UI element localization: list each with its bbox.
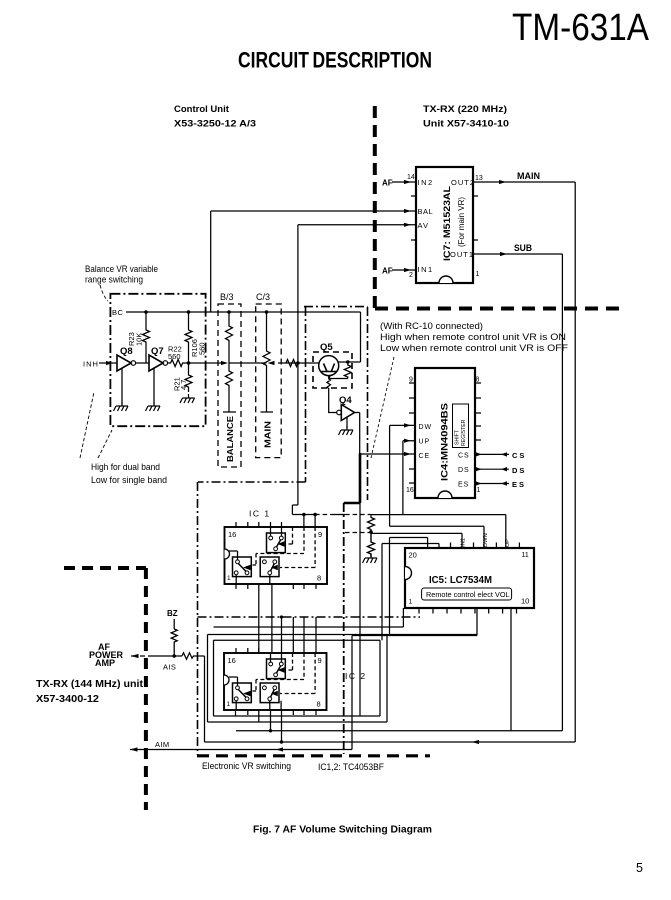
svg-text:BC: BC <box>112 308 124 317</box>
svg-text:DWN: DWN <box>483 533 489 547</box>
svg-text:20: 20 <box>409 551 417 560</box>
resistor Q5 emitter-collector <box>346 360 350 364</box>
svg-text:AMP: AMP <box>95 658 115 668</box>
wire IC5 bottom to AIM via x352 <box>352 608 477 750</box>
unit boundary thick dashed horizontal (220MHz) <box>375 307 626 311</box>
svg-text:BALANCE: BALANCE <box>225 416 235 462</box>
svg-text:CS: CS <box>512 451 526 460</box>
dash-dot boundary lower vertical <box>343 503 345 754</box>
svg-text:5: 5 <box>636 861 643 875</box>
switch IC2 <box>224 648 367 715</box>
svg-text:MAIN: MAIN <box>263 421 273 448</box>
svg-text:IC 2: IC 2 <box>345 671 367 681</box>
svg-text:REGISTER: REGISTER <box>461 419 467 446</box>
svg-text:2: 2 <box>409 272 413 279</box>
svg-text:Balance VR variable: Balance VR variable <box>85 264 158 274</box>
svg-text:10K: 10K <box>135 333 144 346</box>
svg-text:AIS: AIS <box>163 663 176 672</box>
svg-text:X53-3250-12 A/3: X53-3250-12 A/3 <box>174 119 256 130</box>
svg-text:C/3: C/3 <box>256 292 270 302</box>
svg-text:Q8: Q8 <box>120 346 133 357</box>
wire ctl line over IC1 <box>292 363 315 515</box>
svg-text:14: 14 <box>407 174 415 181</box>
wire DS stub <box>475 468 509 470</box>
leader from note <box>371 357 394 458</box>
wire BAL <box>211 211 416 312</box>
svg-text:AF: AF <box>382 267 393 276</box>
wire UP path <box>403 441 506 548</box>
wire C/3 tap to Q5 <box>278 362 319 364</box>
svg-text:CS: CS <box>458 453 470 460</box>
svg-text:DS: DS <box>458 467 470 474</box>
cell s4 <box>267 659 286 679</box>
svg-text:1: 1 <box>409 599 413 606</box>
cell s5 <box>233 683 252 703</box>
boundary thick dashed bottom horizontal <box>197 754 430 757</box>
wires to cells <box>229 653 282 710</box>
wire CE path <box>360 453 416 455</box>
svg-text:TX-RX (220 MHz): TX-RX (220 MHz) <box>423 104 507 115</box>
svg-text:MAIN: MAIN <box>517 171 540 181</box>
svg-text:1: 1 <box>227 701 231 708</box>
IC4 shift register <box>406 368 481 498</box>
svg-text:IC5: LC7534M: IC5: LC7534M <box>429 575 492 586</box>
unit boundary thick dashed (144MHz) <box>64 568 146 810</box>
svg-text:ES: ES <box>512 480 526 489</box>
svg-text:9: 9 <box>318 530 322 539</box>
svg-text:13: 13 <box>475 175 483 182</box>
svg-text:16: 16 <box>406 487 414 494</box>
svg-text:Control Unit: Control Unit <box>174 104 230 115</box>
svg-text:SHIFT: SHIFT <box>455 429 461 445</box>
svg-text:10: 10 <box>521 597 529 606</box>
resistor R23 10K <box>143 312 150 363</box>
svg-text:16: 16 <box>228 530 236 539</box>
leader to box <box>100 285 108 301</box>
cell s1 <box>267 533 286 553</box>
svg-text:OUT2: OUT2 <box>451 178 475 187</box>
svg-text:IC 1: IC 1 <box>249 509 271 519</box>
unit boundary thick dashed vertical (220MHz) <box>373 106 377 311</box>
wire Q4 out <box>355 413 360 455</box>
wire node to B/3 <box>186 362 226 364</box>
svg-text:range switching: range switching <box>85 275 143 285</box>
dash-dot thick jog <box>344 453 360 503</box>
wire AIS <box>131 655 138 657</box>
IC5 volume controller <box>405 533 534 613</box>
wire DW path <box>390 425 484 548</box>
svg-text:CIRCUIT DESCRIPTION: CIRCUIT DESCRIPTION <box>238 48 432 73</box>
wire IC5 wrap left A <box>390 538 428 635</box>
resistor R21 4.7 <box>185 363 192 392</box>
wire AV <box>298 225 416 363</box>
cell s6 <box>260 683 279 703</box>
svg-text:(With RC-10 connected): (With RC-10 connected) <box>380 321 483 331</box>
dashed controls <box>253 653 316 694</box>
dashed controls <box>253 527 316 568</box>
svg-text:(For main VR): (For main VR) <box>456 197 466 247</box>
dash-dot box Q8/Q7 <box>110 294 205 426</box>
svg-text:AIM: AIM <box>155 740 170 749</box>
svg-text:11: 11 <box>522 552 529 559</box>
svg-text:Q7: Q7 <box>151 346 164 357</box>
svg-text:High when remote control unit: High when remote control unit VR is ON <box>380 332 566 342</box>
svg-text:9: 9 <box>318 656 322 665</box>
svg-text:4.7: 4.7 <box>179 380 188 390</box>
wire between pots <box>229 362 267 364</box>
svg-text:Fig. 7 AF Volume Switching Di: Fig. 7 AF Volume Switching Diagram <box>253 825 432 836</box>
wires IC1 to IC2 <box>259 584 272 653</box>
IC7 op-amp box <box>407 167 483 283</box>
svg-text:SUB: SUB <box>514 243 532 253</box>
svg-text:1: 1 <box>476 271 480 278</box>
svg-text:INH: INH <box>83 360 99 369</box>
wire IN1 line to IC5 <box>371 533 462 548</box>
wire IC5 wrap left B <box>382 544 439 641</box>
svg-text:16: 16 <box>228 656 236 665</box>
wire IC5 pin10 down <box>510 608 512 731</box>
svg-text:AV: AV <box>418 221 429 230</box>
cell s3 <box>260 557 279 577</box>
svg-text:Unit X57-3410-10: Unit X57-3410-10 <box>423 119 509 130</box>
svg-text:1: 1 <box>477 487 481 494</box>
svg-text:Low when remote control unit V: Low when remote control unit VR is OFF <box>380 343 568 353</box>
svg-text:IN1: IN1 <box>461 538 467 547</box>
wire AIM <box>130 749 352 751</box>
svg-text:IN1: IN1 <box>418 265 434 274</box>
svg-text:560: 560 <box>198 342 207 355</box>
wires to cells <box>229 527 282 584</box>
wires IC2 bottom drops <box>236 710 282 742</box>
rect inner around IC2 <box>214 640 381 716</box>
svg-text:CE: CE <box>419 453 431 460</box>
svg-text:OUT1: OUT1 <box>450 250 474 259</box>
svg-text:BAL: BAL <box>418 207 434 216</box>
dash-dot boundary left branch <box>198 307 306 755</box>
resistor R106 560 <box>185 312 192 363</box>
svg-text:IN2: IN2 <box>418 178 434 187</box>
resistor lower + ground <box>368 532 375 557</box>
svg-text:BZ: BZ <box>167 609 178 618</box>
svg-text:DW: DW <box>419 424 433 431</box>
wire BC rail <box>126 312 361 362</box>
svg-text:UP: UP <box>505 539 511 547</box>
rect outer around IC2 <box>208 635 478 723</box>
svg-text:High for dual band: High for dual band <box>91 462 160 472</box>
wire ES stub <box>475 483 509 485</box>
wire CS stub <box>475 453 509 455</box>
cell s2 <box>233 557 252 577</box>
svg-text:ES: ES <box>458 482 469 489</box>
svg-text:X57-3400-12: X57-3400-12 <box>36 693 99 705</box>
svg-text:IC4:MN4094BS: IC4:MN4094BS <box>440 403 451 481</box>
svg-text:TM-631A: TM-631A <box>512 7 650 49</box>
svg-text:Remote control elect VOL: Remote control elect VOL <box>426 590 510 599</box>
switch IC1 <box>225 509 328 590</box>
wire IC5 bottom L <box>214 608 404 627</box>
svg-text:Electronic VR switching: Electronic VR switching <box>202 761 291 771</box>
dash-dot horizontal near y617 <box>198 616 421 618</box>
wire Q8 out to Q7 in <box>136 362 149 364</box>
svg-text:B/3: B/3 <box>220 292 234 302</box>
svg-text:AF: AF <box>382 179 393 188</box>
svg-text:TX-RX (144 MHz) unit: TX-RX (144 MHz) unit <box>36 678 144 690</box>
wire x360 down <box>359 503 361 716</box>
resistor hanging at x371 <box>368 515 375 532</box>
svg-text:8: 8 <box>317 700 321 709</box>
svg-text:8: 8 <box>317 574 321 583</box>
svg-text:DS: DS <box>512 466 526 475</box>
svg-text:IC1,2: TC4053BF: IC1,2: TC4053BF <box>318 762 384 772</box>
svg-text:1: 1 <box>227 575 231 582</box>
resistor BZ <box>171 629 177 656</box>
dash-dot boundary right branch <box>304 307 368 500</box>
svg-text:UP: UP <box>419 439 431 446</box>
wire Q5 emitter down <box>327 376 337 413</box>
svg-text:Low for single band: Low for single band <box>91 475 167 485</box>
